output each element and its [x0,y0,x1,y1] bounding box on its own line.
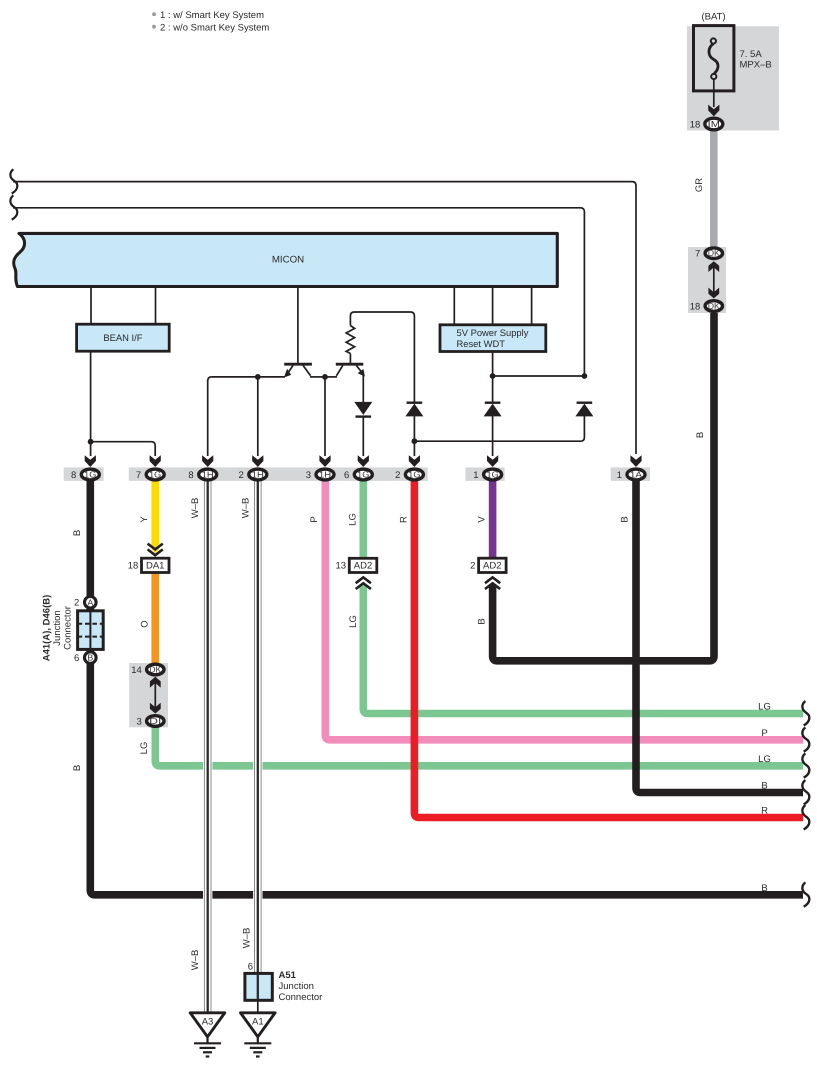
fuse element [709,44,718,74]
wire D1 to 6 1G [362,416,364,456]
svg-text:(BAT): (BAT) [701,12,725,23]
svg-text:MPX–B: MPX–B [740,60,772,71]
svg-text:B: B [87,653,93,663]
connector DK pin7 oval [705,248,722,259]
svg-text:6: 6 [344,470,349,481]
wire node to 1G pin7 [91,442,156,456]
fuse block background [687,26,779,130]
svg-text:R: R [399,516,410,523]
arrow up into DK14 [150,677,161,688]
svg-text:2: 2 [395,470,400,481]
svg-text:A: A [87,597,93,607]
svg-text:LG: LG [348,513,359,526]
svg-text:B: B [695,432,706,438]
svg-text:7. 5A: 7. 5A [740,49,763,60]
connector 1H pin3 [316,469,334,480]
arrow up into DK7 [708,261,719,272]
wire W-B from 2 1H to A51 [255,480,262,974]
svg-text:Connector: Connector [63,606,74,650]
svg-text:1G: 1G [487,469,499,479]
svg-text:Connector: Connector [279,992,323,1003]
svg-text:3: 3 [306,470,311,481]
wire B from 1 1A down right [636,480,803,793]
micon box MICON [14,233,558,286]
svg-text:B: B [761,883,767,894]
svg-text:GR: GR [694,178,705,192]
svg-text:6: 6 [248,962,253,973]
svg-text:7: 7 [695,249,700,260]
svg-text:A41(A), D46(B): A41(A), D46(B) [42,595,53,662]
connector 1G pin2 [405,469,423,480]
power supply box U2 [440,325,546,352]
connector ovals row [71,469,645,481]
svg-text:W–B: W–B [190,498,201,519]
wire line2 from left to diode column [13,208,584,376]
svg-text:5V Power Supply: 5V Power Supply [457,327,529,338]
svg-text:DK: DK [708,248,720,258]
junction connector grid box [78,611,104,650]
svg-text:LG: LG [758,754,771,765]
svg-text:13: 13 [336,561,347,572]
connector DI pin3 oval [147,716,164,727]
wire 5V box to diode D3 [492,352,494,403]
ground A1 triangle [241,1013,276,1037]
connector DA1 box [142,558,170,572]
svg-text:Reset WDT: Reset WDT [457,338,506,349]
break squiggle R [802,805,809,829]
arrow down into DK18 [708,288,719,299]
break squiggle B bottom [802,882,809,906]
break squiggle left line2 [10,195,17,219]
break squiggle LG [802,701,809,725]
wire emitter Q1 horizontal [212,376,285,378]
svg-text:A1: A1 [252,1017,264,1028]
svg-text:2: 2 [470,561,475,572]
node B circle [85,652,97,664]
svg-text:18: 18 [128,561,139,572]
svg-text:B: B [72,765,83,771]
junction connector A51 box [245,973,272,1000]
svg-text:14: 14 [131,665,142,676]
svg-text:1A: 1A [630,469,642,479]
junction dot 2 1H [255,374,261,380]
wire O DA1 to DK14 [151,573,159,664]
connector 1H pin8 [199,469,217,480]
wire node to 1G pin8 [90,442,92,456]
wire D2 to 2 1G [413,416,415,456]
svg-text:Junction: Junction [279,981,314,992]
svg-text:1G: 1G [357,469,369,479]
svg-text:AD2: AD2 [483,561,501,572]
connector AD2 pin2 box [479,558,507,572]
chevrons into AD2 pin13 [356,577,371,589]
svg-text:IM: IM [708,119,720,129]
arrow into 1G pin8 [85,455,96,467]
svg-text:MICON: MICON [272,255,304,266]
svg-text:1H: 1H [252,469,264,479]
ground A1 symbol [244,1037,271,1057]
wire resistor top to 2 1G column [350,312,414,402]
svg-text:B: B [72,530,83,536]
wire R from 2 1G [414,480,803,818]
wire MICON to 5V box left [453,287,455,325]
chevrons into DA1 [148,544,163,556]
wire GR [710,128,718,249]
background [129,663,168,727]
connector 1A pin1 [627,469,645,480]
wire node to 1H pin2 [257,377,259,456]
wire fuse to IM [713,79,715,107]
wire MICON to BEAN I/F left [90,287,92,325]
connector 1G pin8 [81,469,99,480]
wire B from 8 1G down and right [90,480,803,895]
wire P from 3 1H [325,480,803,740]
svg-text:A51: A51 [279,970,297,981]
connector DK pin18 oval [705,301,722,312]
svg-text:2: 2 [74,598,79,609]
svg-text:1H: 1H [319,469,331,479]
strip 8 1G [64,467,104,481]
chevrons into AD2 pin2 [485,577,500,589]
svg-text:8: 8 [188,470,193,481]
svg-text:W–B: W–B [242,928,253,949]
arrow into 1G pin6 [358,455,369,467]
junction dot D4 top [582,373,588,379]
arrow into 1G pin1 [487,455,498,467]
wire MICON to 5V box middle [492,287,494,325]
wire LG from DI3 down right [155,727,803,766]
diode D1 (down) [354,402,372,417]
break squiggle LG2 [802,753,809,777]
legend note 1 [152,12,156,16]
svg-text:P: P [761,728,767,739]
wire between [154,679,156,712]
wire Q2 emitter to diode D1 [362,375,364,403]
wire LG from 6 1G to AD2 [359,480,367,558]
connector IM oval [705,118,723,130]
break squiggle left line1 [10,169,17,193]
svg-text:A3: A3 [202,1017,214,1028]
wire MICON to Q1 collector [297,287,299,364]
svg-text:3: 3 [137,716,142,727]
svg-text:7: 7 [136,470,141,481]
diode D2 (up) at 2 1G column [405,403,423,417]
arrow into 1G pin2 [409,455,420,467]
wire W-B from 8 1H to ground A3 [204,480,211,1013]
transistor Q2 [325,364,365,377]
svg-text:DI: DI [149,716,161,726]
junction dot 2 1G [412,438,418,444]
svg-text:DK: DK [708,301,720,311]
wire MICON to BEAN I/F right [155,287,157,325]
svg-text:18: 18 [690,302,701,313]
wire B from AD2 chevron to DK18 [489,583,497,588]
ground A3 symbol [194,1037,221,1057]
svg-text:O: O [140,620,151,627]
svg-text:AD2: AD2 [354,561,372,572]
junction dot 3 1H [322,374,328,380]
wire BEAN I/F to node [90,351,92,442]
svg-text:1G: 1G [84,469,96,479]
arrow into IM [708,105,719,117]
svg-text:LG: LG [758,702,771,713]
svg-text:BEAN I/F: BEAN I/F [103,332,142,343]
connector AD2 pin13 box [349,558,377,572]
svg-text:LG: LG [139,742,150,755]
arrow into 1H pin3 [319,455,330,467]
svg-text:1G: 1G [149,469,161,479]
svg-text:V: V [477,516,488,523]
svg-text:2: 2 [239,470,244,481]
svg-text:B: B [620,516,631,522]
diode D3 (up) [484,403,502,417]
resistor R1 [346,316,354,363]
wire LG from AD2 chevron down right [360,583,368,588]
junction dot D3 top [490,373,496,379]
svg-text:1G: 1G [408,469,420,479]
wire corner to 1H pin8 [208,377,212,381]
wire Y from 7 1G [151,480,159,549]
wire 2 1G node to diode D4 column [414,416,584,441]
junction dot 8 1G [88,439,94,445]
svg-text:W–B: W–B [190,950,201,971]
wire node D4 to node D3 [493,375,585,377]
svg-text:1 : w/ Smart Key System: 1 : w/ Smart Key System [160,10,264,21]
svg-text:P: P [309,516,320,522]
svg-text:1: 1 [473,470,478,481]
bean if box BEAN I/F [77,324,170,351]
svg-text:Y: Y [139,516,150,523]
wire MICON to 5V box right [531,287,533,325]
svg-text:DA1: DA1 [146,561,164,572]
arrow down into DI3 [150,703,161,714]
break squiggle B [802,780,809,804]
arrow into 1G pin7 [150,455,161,467]
svg-text:1H: 1H [202,469,214,479]
break squiggle P [802,727,809,751]
connector 1G pin6 [354,469,372,480]
strip main [129,467,428,481]
svg-text:B: B [761,781,767,792]
svg-text:1: 1 [617,470,622,481]
svg-text:DK: DK [149,665,161,675]
connector 1H pin2 [249,469,267,480]
svg-text:6: 6 [74,653,79,664]
svg-text:B: B [477,618,488,624]
svg-text:W–B: W–B [241,498,252,519]
wire A51 to ground A1 [257,1000,259,1013]
wire between DK7 and DK18 [713,263,715,297]
ground A3 triangle [190,1013,225,1037]
svg-text:R: R [761,806,768,817]
svg-text:18: 18 [690,120,701,131]
svg-text:2 : w/o Smart Key System: 2 : w/o Smart Key System [160,23,269,34]
connector DK pin14 oval [147,664,164,675]
transistor Q1 [284,364,325,377]
connector 1G pin7 [146,469,164,480]
wire D3 to 1 1G [492,416,494,456]
diode D4 (up) [575,403,593,417]
strip 1 1G [465,467,504,481]
node A circle [85,597,97,609]
arrow into 1A pin1 [630,455,641,467]
wire node to 3 1H [324,377,326,456]
svg-text:Junction: Junction [52,610,63,645]
DK pass-through background [688,247,726,313]
legend note 2 [152,25,156,29]
arrow into 1H pin2 [252,455,263,467]
svg-text:LG: LG [348,615,359,628]
strip 1 1A [611,467,650,481]
wire line1 from left to 1A [13,182,636,454]
wire V from 1 1G to AD2 [489,480,497,558]
fuse F1 box [694,26,734,91]
connector 1G pin1 [484,469,502,480]
svg-text:8: 8 [71,470,76,481]
arrow into 1H pin8 [202,455,213,467]
